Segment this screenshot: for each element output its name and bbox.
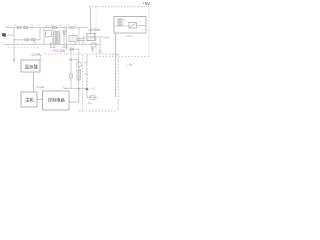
optocoupler U3 [69, 36, 77, 42]
relay coil KA [77, 70, 81, 80]
svg-text:C2: C2 [37, 24, 41, 28]
svg-text:KA: KA [84, 72, 88, 76]
ground [92, 47, 94, 49]
ground under aux [98, 50, 102, 52]
pink dashed box: right edge [117, 54, 119, 111]
pink dashed box: control section top [38, 53, 118, 55]
wire: relay internal [114, 25, 129, 27]
block: display module (box A) [21, 60, 40, 72]
wire: bottom return rail [3, 43, 100, 45]
svg-text:104: 104 [62, 45, 68, 49]
wire: bridge input vertical [43, 28, 45, 45]
label above box C [62, 86, 64, 89]
pink dashed divider [82, 55, 84, 111]
wire: 7805 output to +5V arrow [95, 36, 103, 38]
dashed box: power module left edge [95, 7, 97, 57]
IC U1 TNY switcher [51, 43, 56, 48]
svg-text:J2: J2 [65, 86, 69, 90]
capacitor C1 [25, 39, 29, 41]
block: MCU (box B) [21, 92, 37, 107]
svg-text:T1: T1 [51, 24, 55, 28]
wire: sense vertical [78, 49, 80, 88]
wire: aux output vertical [99, 37, 101, 51]
transistor V1 [76, 62, 81, 67]
wire: top rail [14, 27, 88, 29]
wire: filter loop bottom [14, 39, 40, 41]
svg-text:VD: VD [59, 24, 63, 28]
wire: loop to return stub [34, 40, 36, 45]
svg-text:L1: L1 [22, 24, 25, 28]
net +5V dashed rail [89, 6, 146, 8]
capacitor C2 [32, 39, 36, 41]
svg-text:K: K [124, 18, 126, 22]
wire: box B to box C [37, 99, 43, 101]
svg-text:→5V: →5V [126, 63, 134, 67]
node C [86, 88, 89, 91]
AC plug symbol [2, 33, 6, 37]
regulator U2 7805 [87, 34, 95, 41]
bridge rectifier VC1 [46, 31, 52, 37]
resistor R3 [70, 74, 73, 78]
svg-text:R4: R4 [84, 61, 88, 65]
node D1-rail [63, 27, 64, 28]
svg-text:RS232: RS232 [36, 85, 45, 89]
diode VD2 [66, 48, 79, 50]
wire: contact to box edge [137, 25, 147, 27]
wire: filter loop right side [39, 28, 41, 40]
svg-text:5V DY: 5V DY [112, 53, 120, 57]
capacitor C5b [75, 42, 77, 44]
resistor R5 [90, 96, 95, 99]
dashed box: power module right edge [148, 4, 150, 57]
svg-text:~220V: ~220V [30, 53, 41, 57]
svg-text:VC: VC [44, 24, 48, 28]
diode VD1 [63, 28, 65, 45]
svg-text:V1: V1 [92, 87, 96, 91]
wire: secondary output vertical [65, 28, 67, 50]
dashed segment: input boundary [8, 46, 40, 48]
svg-text:JDQ: JDQ [127, 34, 134, 38]
svg-text:C9: C9 [98, 28, 102, 32]
relay contact [129, 23, 137, 29]
svg-text:AC: AC [6, 24, 10, 28]
tick near box C [40, 87, 44, 89]
relay coil [118, 19, 122, 26]
capacitor C5 on rail [70, 27, 74, 29]
capacitor C6 [78, 28, 80, 39]
node J2 [45, 27, 47, 29]
relay box K1 [114, 17, 146, 34]
wire: left branch vertical [70, 49, 72, 88]
transformer T1 core [55, 31, 57, 44]
wire: box C right to control [69, 101, 79, 103]
wire: AC mid stub [3, 34, 14, 36]
wire: bottom rail of control [64, 88, 87, 90]
wire: feedback vertical [86, 55, 88, 98]
block: control circuit (box C) [43, 91, 70, 110]
svg-text:+5V: +5V [103, 36, 110, 40]
inductor L2 on rail [52, 26, 57, 28]
svg-text:C5: C5 [74, 24, 78, 28]
wire: AC live stub [5, 27, 14, 29]
svg-text:C4: C4 [66, 24, 70, 28]
wire: relay drive vertical [115, 33, 117, 97]
node green-left [70, 59, 72, 61]
capacitor C7 [82, 37, 84, 39]
svg-text:TNY268: TNY268 [52, 49, 65, 53]
wire: 7805 input [83, 36, 87, 38]
svg-text:FU: FU [14, 24, 18, 28]
svg-text:主机: 主机 [25, 96, 34, 103]
pink dashed box: left edge stub [40, 55, 42, 60]
node C6-rail [78, 27, 79, 28]
svg-text:控制电路: 控制电路 [48, 96, 66, 103]
wire end tick [13, 60, 15, 63]
node J1 [31, 27, 33, 29]
wire: +5V feed vertical [90, 7, 92, 34]
capacitor C8 [91, 43, 96, 47]
transformer T1 primary [53, 31, 56, 44]
wire: box A to box B [33, 72, 35, 92]
node B [78, 88, 80, 90]
wire: lower branch [87, 97, 98, 99]
svg-text:7805: 7805 [88, 36, 96, 40]
svg-text:R6: R6 [88, 101, 92, 105]
inductor L1 [24, 26, 28, 28]
svg-text:C1: C1 [30, 24, 34, 28]
wire: led branch horizontal [69, 59, 79, 61]
fuse FU1 [18, 26, 22, 28]
transformer T1 secondary [57, 31, 60, 44]
pink dashed box: bottom edge [79, 110, 118, 112]
dashed box: power module bottom edge [96, 56, 149, 58]
wire: left vertical input bus [13, 28, 15, 62]
